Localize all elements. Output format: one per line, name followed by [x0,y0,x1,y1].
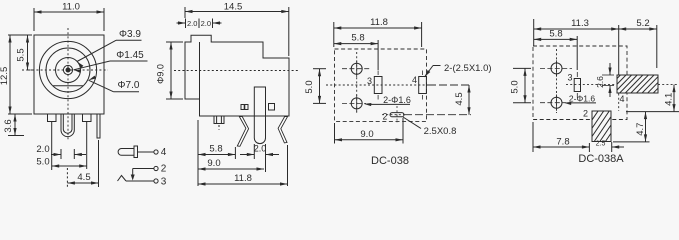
view 3: vertical centerline through holes [356,52,358,114]
dim 7.8 [533,146,589,148]
dim 4.7 extension line [613,141,650,143]
dim 5.8 (view 4) [534,38,578,40]
view 1: thin side pin [97,114,100,138]
svg-text:DC-038A: DC-038A [578,153,624,165]
dim 11.8 (view 3) [334,27,422,29]
svg-text:12.5: 12.5 [0,67,10,86]
schematic: pin 4 line and terminal [138,151,154,153]
view 2: side view outline [185,35,289,116]
svg-text:9.0: 9.0 [360,129,373,140]
svg-text:3.6: 3.6 [3,119,14,132]
dim 5.0 (view 3) extension lines [313,68,326,70]
svg-text:5.8: 5.8 [209,144,222,155]
dim 11.0 [34,11,104,13]
view 1: pin tab right [83,114,92,122]
svg-text:Φ9.0: Φ9.0 [156,64,166,84]
view 2: flange right edge [199,42,201,99]
view 1: horizontal centerline [28,69,108,71]
view 1: circle dia 3.9 [56,58,81,83]
dim 3.6 extension line [8,135,24,137]
label 2-(2.5X1.0) with leader [425,66,434,78]
view 2: mounting foot [214,116,224,124]
svg-text:2.0: 2.0 [201,19,211,28]
view 1: vertical centerline [67,28,69,140]
dim 3.6 [14,114,16,136]
dim 11.8 (view 3) extension lines [333,22,335,47]
svg-text:5.5: 5.5 [16,48,27,61]
svg-text:3: 3 [161,177,167,188]
dim 5.2 extension line [656,25,658,68]
svg-text:4: 4 [412,75,417,85]
view 4: pads row centerline [566,84,616,86]
view 2: claw leg right [278,117,288,143]
svg-text:2.5: 2.5 [596,141,606,148]
view 4: hole 1 circle [551,63,562,74]
svg-text:5.0: 5.0 [36,157,49,168]
dim 5.0 (view 4) extension lines [513,67,531,69]
hatch pad 4 left edge extension dashes [618,94,620,112]
dim 2.0 2.0 arrows and text [177,22,186,24]
svg-text:11.8: 11.8 [370,17,388,28]
view 4: hatched pad 2 vertical [592,111,611,142]
svg-text:7.8: 7.8 [556,137,569,148]
dim 14.5 [185,11,289,13]
svg-text:14.5: 14.5 [224,2,243,13]
view 1: flat chord of 7.0 circle [53,85,83,87]
dim 5.5 [27,35,29,70]
svg-text:4.5: 4.5 [454,92,465,105]
view 4: pad 3 [574,79,580,92]
svg-text:Φ1.45: Φ1.45 [116,50,144,61]
svg-text:2-Φ1.6: 2-Φ1.6 [569,93,595,103]
dim 5.0 extension lines [51,130,53,170]
svg-text:3: 3 [567,73,572,83]
svg-text:5.8: 5.8 [549,29,562,40]
view 4: vertical centerline through holes [556,49,558,113]
svg-text:4.5: 4.5 [77,172,90,183]
view 1: circle dia 7.0 [46,48,90,92]
view 3: pads row centerline [326,84,428,86]
view 3: slot pad 2 obround [390,113,404,117]
dim 7.8 extension lines [532,122,534,152]
svg-text:Φ3.9: Φ3.9 [119,29,141,40]
view 3: pad 3 [374,77,382,94]
dim 5.8 (view 2) [198,154,235,156]
dim 11.8 (view 2) [198,183,288,185]
dim 5.8 (view 3) extension line [377,40,379,70]
svg-text:5.8: 5.8 [351,33,364,44]
dim 2.6 ticks and arrows [602,74,614,76]
svg-text:2.0: 2.0 [36,144,49,155]
dim 5.2 [619,28,657,30]
dim dia 9.0 extension lines [166,41,183,43]
svg-text:4.1: 4.1 [664,93,675,106]
view 3: slot row centerline [382,114,404,116]
dim 11.3 extension lines [533,19,535,46]
svg-text:2.0: 2.0 [254,144,267,154]
dim 5.0 (view 3) [319,69,321,104]
svg-text:5.2: 5.2 [636,18,649,29]
view 3: hole 2 circle [351,98,362,109]
view 2: center pin side view [254,87,265,144]
dim 11.3 [534,28,619,30]
svg-text:2-(2.5X1.0): 2-(2.5X1.0) [444,63,492,74]
dim 4.7 [645,112,647,142]
svg-text:2: 2 [161,164,167,175]
dim 2.5 ticks [611,142,613,152]
dim 11.0 extension lines [33,8,35,31]
dim 5.5 extension line [22,69,33,71]
view 4: pad 4 centerline extension [658,84,679,86]
dim 2.0 2.0 ticks [185,19,187,29]
dim 5.0 (view 4) [524,68,526,102]
svg-text:5.0: 5.0 [304,80,315,93]
view 1: circle dia 1.45 [63,65,72,74]
dim 12.5 [9,35,11,114]
svg-text:2.0: 2.0 [187,19,197,28]
schematic: plug tip symbol [118,149,134,156]
svg-text:2.5X0.8: 2.5X0.8 [424,126,457,137]
dim 4.1 extension line [626,111,679,113]
view 1: pin tab left [48,114,57,122]
view 3: pad 4 [419,77,427,94]
view 1: barrel outer circle (9.0) [39,41,96,98]
dim dia 9.0 [170,42,172,99]
svg-text:4: 4 [619,94,624,104]
dim 9.0 (view 3) extension lines [334,123,336,144]
svg-text:4.7: 4.7 [635,123,646,136]
schematic: pin 2 line and terminal [154,166,158,170]
dim 9.0 (view 3) [335,139,404,141]
view 1: jack front view body square [34,35,104,114]
label 2.5X0.8 with leader [403,117,421,129]
svg-text:5.0: 5.0 [510,80,521,93]
svg-text:11.3: 11.3 [571,18,589,29]
dim 9.0 (view 2) [198,168,264,170]
view 1: center pin dot [66,68,70,72]
view 3: hole 1 circle [351,63,362,74]
dim 4.5 (view 3) [468,85,470,115]
dim 2.0 (view 2 pin) [240,154,254,156]
svg-text:3: 3 [367,76,372,86]
view 2 bottom: extension lines [197,120,199,186]
dim 5.8 (view 3) [334,43,378,45]
svg-text:DC-038: DC-038 [371,155,409,167]
dim 14.5 extension lines [184,7,186,18]
svg-text:11.0: 11.0 [62,2,80,13]
svg-text:2: 2 [583,109,588,119]
view 2: inner detail squares [241,105,244,110]
dim 12.5 extension lines [8,34,32,36]
view 3: footprint outline dashed rect [335,49,427,121]
view 1: center pin U shape [61,114,74,137]
svg-text:2.6: 2.6 [595,76,605,88]
svg-text:2: 2 [382,112,387,122]
view 4: footprint outline dashed rect [533,46,627,120]
view 4: hole 2 circle [551,97,562,108]
view 4: hatched pad 4 [617,75,658,93]
svg-text:4: 4 [161,147,167,158]
view 2: claw leg left [237,117,248,147]
dim 4.5 [67,182,98,184]
view 2: horizontal centerline [174,70,298,72]
schematic: pin 3 switch contact [154,179,158,183]
svg-text:Φ7.0: Φ7.0 [118,80,140,91]
svg-text:2-Φ1.6: 2-Φ1.6 [383,95,411,105]
dim 4.1 [673,85,675,112]
svg-text:9.0: 9.0 [207,158,220,169]
dim 5.8 (view 4) extension line [576,36,578,70]
dim 4.5 extension lines [66,168,68,187]
svg-text:11.8: 11.8 [234,173,252,184]
